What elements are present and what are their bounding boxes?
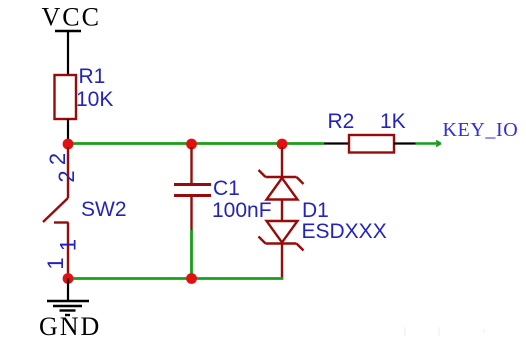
wire	[67, 31, 69, 76]
wire	[68, 277, 192, 280]
svg-text:D1: D1	[302, 199, 329, 222]
switch SW2	[43, 147, 69, 279]
wire	[192, 277, 284, 280]
wire	[190, 230, 193, 279]
svg-text:R1: R1	[79, 65, 106, 88]
wire	[282, 142, 324, 145]
wire	[416, 141, 442, 147]
svg-text:GND: GND	[39, 312, 101, 341]
svg-text:100nF: 100nF	[212, 199, 272, 222]
svg-text:2: 2	[45, 153, 70, 165]
svg-text:1: 1	[43, 257, 68, 269]
resistor R1	[55, 75, 77, 119]
wire	[192, 142, 283, 145]
svg-text:R2: R2	[328, 110, 355, 133]
ground	[39, 279, 101, 342]
svg-text:10K: 10K	[76, 88, 113, 111]
wire	[67, 119, 69, 144]
svg-text:2: 2	[54, 170, 79, 182]
svg-text:VCC: VCC	[42, 3, 101, 32]
faint watermark marks	[405, 327, 484, 336]
junction	[186, 139, 197, 150]
diode D1 (TVS)	[259, 147, 304, 279]
svg-text:C1: C1	[213, 177, 240, 200]
power symbol VCC	[42, 3, 101, 32]
svg-text:SW2: SW2	[81, 198, 127, 221]
svg-text:ESDXXX: ESDXXX	[302, 220, 387, 243]
junction node A	[63, 139, 74, 150]
wire	[68, 142, 192, 145]
svg-text:KEY_IO: KEY_IO	[443, 119, 519, 141]
junction	[277, 139, 288, 150]
svg-text:1K: 1K	[380, 110, 406, 133]
junction	[63, 273, 74, 284]
svg-text:1: 1	[56, 239, 81, 251]
junction	[186, 273, 197, 284]
resistor R2	[324, 135, 416, 153]
capacitor C1	[174, 147, 211, 230]
